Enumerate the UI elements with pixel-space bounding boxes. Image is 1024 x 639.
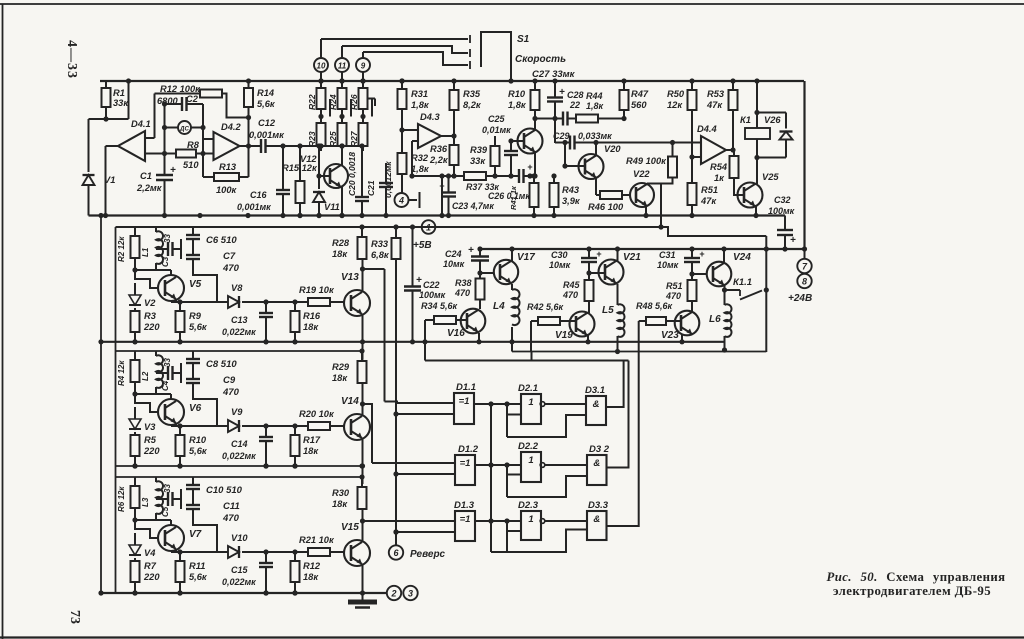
wire D1.1 out	[474, 403, 521, 405]
svg-text:V17: V17	[517, 252, 535, 263]
svg-text:R39: R39	[470, 145, 488, 155]
op-amp D4.4	[701, 136, 726, 164]
terminal circle 10	[314, 58, 328, 72]
svg-text:R12: R12	[303, 561, 321, 571]
row3 coupling U	[491, 530, 587, 553]
svg-text:470: 470	[222, 513, 240, 524]
transistor V6	[158, 399, 184, 425]
capacitor &#1057;9	[186, 378, 200, 380]
svg-text:+: +	[527, 162, 532, 172]
svg-text:R17: R17	[303, 435, 321, 445]
svg-text:V5: V5	[189, 279, 202, 290]
block edge x362	[362, 342, 364, 360]
page top border	[0, 3, 1024, 5]
V26 branch top	[757, 112, 786, 114]
svg-text:R6 12к: R6 12к	[117, 486, 126, 512]
svg-text:11: 11	[338, 61, 347, 70]
terminal circle 1	[422, 220, 436, 234]
svg-text:10мк: 10мк	[657, 260, 679, 270]
switch wire c	[363, 52, 468, 65]
svg-text:10мк: 10мк	[549, 260, 571, 270]
V24 base wire	[692, 273, 707, 275]
wire D1.2 in1	[372, 462, 455, 464]
resistor R13	[203, 176, 214, 178]
emitter wire V14	[362, 439, 364, 466]
transistor V7	[158, 525, 184, 551]
svg-text:R43: R43	[562, 185, 580, 195]
wire V8 to R19	[242, 301, 308, 303]
junction	[297, 213, 302, 218]
diode V9	[228, 420, 239, 432]
resistor R16	[294, 302, 296, 311]
R15 junctions	[297, 143, 302, 148]
V25 collector wire	[756, 158, 758, 185]
lower rail y352	[512, 351, 766, 353]
wire D1.1 in2	[396, 413, 454, 415]
capacitor C27/C28 electrolytic	[554, 81, 556, 98]
capacitor C1	[156, 174, 173, 176]
feedback bus x154	[154, 94, 156, 139]
resistor R48	[646, 317, 666, 325]
svg-text:0,022мк: 0,022мк	[222, 577, 256, 587]
svg-text:33к: 33к	[113, 98, 129, 108]
svg-text:470: 470	[222, 263, 240, 274]
+5V rail drop	[765, 236, 767, 352]
capacitor C23	[448, 176, 450, 193]
svg-text:S1: S1	[517, 34, 530, 45]
svg-text:С32: С32	[774, 195, 791, 205]
resistor R9	[179, 302, 181, 311]
relay K1 coil	[745, 128, 770, 139]
junction C16	[280, 143, 285, 148]
svg-text:1: 1	[426, 222, 431, 232]
resistor R21	[308, 548, 330, 556]
V12 base wire	[319, 175, 330, 177]
block edge x362	[362, 466, 364, 484]
inductor L2	[155, 351, 157, 356]
svg-text:L2: L2	[141, 371, 150, 381]
wire D4.1 output	[106, 145, 119, 147]
svg-text:R10: R10	[508, 89, 526, 99]
collector wire V13	[362, 259, 364, 291]
tap jog R26	[371, 99, 373, 117]
svg-text:R29: R29	[332, 362, 350, 372]
svg-text:R14: R14	[257, 88, 275, 98]
svg-text:33: 33	[163, 358, 172, 367]
+5V rail	[116, 227, 767, 236]
svg-text:100к: 100к	[216, 185, 238, 195]
svg-text:2,2мк: 2,2мк	[136, 183, 163, 193]
svg-text:1,8к: 1,8к	[586, 101, 604, 111]
svg-text:R7: R7	[144, 561, 157, 571]
capacitor &#1057;3	[156, 248, 168, 250]
tacho sensor DC	[178, 121, 191, 134]
resistor R14	[248, 81, 250, 88]
junction R47 rail	[621, 78, 626, 83]
junction R53 rail	[730, 78, 735, 83]
diode V1	[83, 175, 95, 185]
svg-text:электродвигателем ДБ-95: электродвигателем ДБ-95	[833, 584, 991, 598]
gate D3.3	[587, 511, 607, 540]
junction R26 rail	[360, 78, 365, 83]
V23 emitter wire	[681, 334, 683, 342]
svg-text:С7: С7	[223, 251, 236, 262]
svg-text:D2.2: D2.2	[518, 441, 539, 452]
svg-text:+: +	[468, 245, 474, 256]
svg-text:К1: К1	[740, 115, 751, 125]
signal wire y146	[266, 145, 363, 147]
diode V26	[780, 132, 793, 140]
svg-text:12к: 12к	[667, 100, 683, 110]
wire y118 left	[535, 118, 563, 120]
resistor R26	[362, 81, 364, 88]
wire D1.2 out	[475, 464, 521, 466]
wire D4.4 in2	[692, 156, 701, 158]
inductor L3	[155, 477, 157, 482]
transistor V16	[461, 309, 486, 334]
resistor R3	[131, 311, 140, 332]
emitter wire V7	[175, 549, 177, 552]
resistor R51	[688, 183, 697, 205]
wire D2.1 to D3.1	[544, 403, 586, 405]
collector wire V5	[156, 269, 171, 271]
resistor R53	[732, 81, 734, 90]
capacitor &#1057;6	[192, 227, 194, 235]
inductor L4	[512, 289, 520, 325]
svg-text:R9: R9	[189, 311, 202, 321]
svg-text:С25: С25	[488, 114, 506, 124]
svg-text:10мк: 10мк	[443, 259, 465, 269]
svg-text:1к: 1к	[714, 173, 725, 183]
wire C2 right	[187, 103, 204, 105]
resistor R10	[179, 426, 181, 435]
V21 emitter wire	[617, 284, 619, 305]
junction R50 D44	[689, 154, 694, 159]
svg-text:L1: L1	[141, 247, 150, 257]
junction S1 rail	[508, 78, 513, 83]
svg-text:Скорость: Скорость	[515, 54, 566, 65]
svg-text:R8: R8	[187, 140, 200, 150]
capacitor C24	[479, 249, 481, 257]
V20 collector wire	[595, 143, 597, 156]
svg-text:&: &	[593, 458, 600, 469]
V17 base wire	[480, 272, 494, 274]
svg-text:V11: V11	[324, 202, 340, 212]
svg-text:R10: R10	[189, 435, 207, 445]
svg-text:С24: С24	[445, 249, 462, 259]
svg-text:R20 10к: R20 10к	[299, 409, 335, 419]
svg-text:R49 100к: R49 100к	[626, 156, 667, 166]
svg-text:R2 12к: R2 12к	[117, 236, 126, 262]
emitter wire V5	[175, 299, 177, 302]
svg-text:V14: V14	[341, 396, 359, 407]
junction R31 rail	[399, 78, 404, 83]
svg-text:С11: С11	[223, 501, 240, 512]
wire D4.3 in2	[412, 140, 418, 142]
svg-text:0,022мк: 0,022мк	[222, 451, 256, 461]
resistor R1	[105, 81, 107, 88]
svg-text:0,033мк: 0,033мк	[578, 131, 612, 141]
svg-text:1,8к: 1,8к	[411, 100, 430, 110]
wire D1.3 in2	[396, 531, 455, 533]
svg-text:D2.3: D2.3	[518, 500, 539, 511]
svg-text:R35: R35	[463, 89, 481, 99]
svg-text:D2.1: D2.1	[518, 383, 538, 394]
svg-text:V4: V4	[144, 548, 156, 558]
svg-text:С28: С28	[567, 90, 584, 100]
svg-text:С20 0,0018: С20 0,0018	[347, 152, 357, 196]
junction reverse bus	[393, 529, 398, 534]
capacitor C26	[518, 169, 520, 183]
svg-text:R36: R36	[430, 144, 448, 154]
svg-text:9: 9	[361, 61, 366, 70]
svg-text:С1: С1	[140, 171, 152, 181]
svg-text:18к: 18к	[332, 499, 348, 509]
resistor R27	[359, 123, 368, 146]
junction R50 rail	[689, 78, 694, 83]
svg-text:R26: R26	[349, 94, 359, 110]
block3 top rail	[116, 476, 363, 478]
svg-text:R46 100: R46 100	[588, 202, 624, 212]
wire R12 right	[221, 94, 249, 118]
C16 hang	[282, 146, 284, 190]
gate D3.2	[587, 455, 607, 485]
V18 base wire	[511, 140, 524, 142]
junction V13 collector tap	[360, 266, 365, 271]
left bus	[100, 216, 102, 594]
svg-text:V10: V10	[231, 533, 248, 543]
svg-text:С30: С30	[551, 250, 568, 260]
svg-text:R32: R32	[411, 153, 429, 163]
resistor R45	[585, 280, 594, 301]
svg-text:Реверс: Реверс	[410, 549, 446, 560]
wire x128	[128, 81, 130, 119]
resistor R31	[401, 81, 403, 89]
R39 column	[494, 136, 496, 146]
V13 tap wire	[363, 268, 385, 270]
resistor R22	[320, 81, 322, 88]
diode V2	[134, 283, 136, 295]
svg-text:470: 470	[454, 288, 470, 298]
svg-text:D1.2: D1.2	[458, 444, 479, 455]
V12 collector wire	[341, 146, 343, 165]
lower rail y342	[101, 341, 725, 343]
resistor R15	[299, 146, 301, 181]
svg-text:470: 470	[222, 387, 240, 398]
bus x164	[164, 104, 166, 175]
svg-text:=1: =1	[460, 458, 471, 469]
svg-text:0,01мк: 0,01мк	[482, 125, 511, 135]
ground rail	[103, 592, 386, 594]
V23 base wire	[666, 320, 681, 322]
svg-text:3,9к: 3,9к	[562, 196, 581, 206]
svg-text:+24В: +24В	[788, 293, 812, 304]
V11 junctions	[316, 143, 321, 148]
op-amp D4.2	[214, 132, 240, 160]
svg-text:L4: L4	[493, 301, 505, 312]
resistor R42	[538, 317, 560, 325]
svg-text:2,2к: 2,2к	[429, 155, 449, 165]
svg-text:R30: R30	[332, 488, 350, 498]
gate D1.2	[455, 455, 475, 485]
gate D1.1	[454, 393, 474, 424]
svg-text:R19 10к: R19 10к	[299, 285, 335, 295]
junction	[98, 339, 103, 344]
capacitor C22	[412, 227, 414, 287]
shared feedback line y361	[425, 360, 629, 362]
page left border	[2, 4, 4, 639]
junction	[359, 463, 364, 468]
signal wire V6 emitter	[171, 425, 228, 427]
V21 base wire	[588, 262, 590, 273]
svg-text:V16: V16	[447, 328, 465, 339]
V21 collector wire	[617, 249, 619, 261]
svg-text:R42 5,6к: R42 5,6к	[527, 302, 564, 312]
svg-text:Рис. 50. Схема управления: Рис. 50. Схема управления	[826, 570, 1005, 584]
svg-text:&: &	[593, 399, 600, 410]
svg-text:18к: 18к	[332, 373, 348, 383]
capacitor C32	[784, 216, 786, 231]
base wire V7	[135, 520, 158, 538]
svg-text:V24: V24	[733, 252, 751, 263]
emitter wire V6	[175, 423, 177, 426]
capacitor C29 wire	[555, 142, 570, 144]
wire D4.1 in2 / R8 left	[145, 153, 176, 155]
V16 base wire	[456, 319, 467, 321]
capacitor &#1057;15	[265, 552, 267, 563]
junction V15 collector	[360, 518, 365, 523]
svg-text:R34 5,6к: R34 5,6к	[421, 301, 458, 311]
svg-text:1: 1	[528, 455, 533, 466]
svg-text:R15 12к: R15 12к	[282, 163, 318, 173]
svg-text:V19: V19	[555, 330, 573, 341]
resistor R28	[361, 227, 363, 237]
wire R44 left	[568, 118, 577, 120]
switch contact c	[469, 61, 471, 69]
wire x442 down	[441, 176, 443, 216]
svg-text:470: 470	[665, 291, 681, 301]
svg-text:4: 4	[398, 195, 404, 205]
ground symbol	[362, 593, 364, 600]
svg-text:R5: R5	[144, 435, 157, 445]
svg-text:С10 510: С10 510	[206, 485, 243, 496]
svg-text:D4.3: D4.3	[420, 112, 440, 122]
page bottom edge	[0, 636, 1024, 638]
svg-text:220: 220	[143, 572, 160, 582]
svg-text:47к: 47к	[700, 196, 717, 206]
+24V rail	[480, 248, 805, 250]
svg-text:ДС: ДС	[179, 126, 189, 133]
capacitor &#1057;7	[186, 254, 200, 256]
V26 branch bottom	[785, 140, 787, 158]
svg-text:R33: R33	[371, 239, 389, 249]
svg-text:10: 10	[317, 61, 326, 70]
svg-text:V20: V20	[604, 144, 621, 154]
wire C26 right	[524, 175, 535, 177]
wire R8 right	[196, 153, 214, 155]
diode V8	[228, 296, 239, 308]
gate D2.2	[521, 452, 541, 482]
svg-text:С6 510: С6 510	[206, 235, 237, 246]
V20 base wire	[565, 165, 585, 167]
wire D1.1 in1	[397, 402, 454, 404]
wire C29 right	[575, 142, 673, 144]
svg-text:8: 8	[802, 276, 807, 286]
svg-text:С22: С22	[423, 280, 440, 290]
V15 emitter wire	[362, 565, 364, 593]
junction	[177, 463, 182, 468]
svg-text:1: 1	[528, 514, 533, 525]
capacitor C30	[588, 249, 590, 258]
base node R6	[132, 517, 137, 522]
resistor R32	[401, 130, 403, 153]
wire R46 right	[622, 194, 630, 196]
base node R2	[132, 267, 137, 272]
svg-text:С9: С9	[223, 375, 236, 386]
R12 feedback wire	[155, 93, 201, 95]
junction	[245, 213, 250, 218]
switch contact a	[469, 35, 471, 43]
transistor V22	[630, 183, 654, 207]
svg-text:D1.3: D1.3	[454, 500, 475, 511]
svg-text:С12: С12	[258, 118, 276, 128]
resistor R6	[134, 477, 136, 486]
svg-text:R51: R51	[666, 281, 683, 291]
svg-text:5,6к: 5,6к	[189, 322, 208, 332]
svg-text:R48 5,6к: R48 5,6к	[636, 301, 673, 311]
diode V10	[228, 546, 239, 558]
transistor V25	[738, 183, 763, 208]
svg-text:510: 510	[183, 160, 199, 170]
R48 left wire	[639, 320, 646, 322]
wire D4.3 out	[441, 135, 454, 137]
feedback x412	[411, 141, 413, 176]
C2 feedback wire left	[165, 103, 183, 105]
terminal circle 4	[395, 193, 409, 207]
resistor R29	[361, 351, 363, 361]
wire R21 to V15	[330, 551, 344, 553]
svg-text:0,022мк: 0,022мк	[222, 327, 256, 337]
svg-text:D3.1: D3.1	[585, 385, 605, 396]
emitter wire V13	[362, 315, 364, 342]
svg-text:С29: С29	[553, 131, 570, 141]
svg-text:V12: V12	[300, 154, 317, 164]
junction	[132, 590, 137, 595]
V24 collector wire	[723, 249, 725, 262]
svg-text:1: 1	[528, 397, 533, 408]
junction	[263, 463, 268, 468]
junction	[263, 590, 268, 595]
collector wire V6	[156, 393, 171, 395]
svg-text:560: 560	[631, 100, 647, 110]
svg-text:0,0012мк: 0,0012мк	[383, 161, 393, 198]
bus x531	[530, 321, 532, 352]
capacitor C21	[385, 163, 387, 183]
svg-text:С14: С14	[231, 439, 248, 449]
svg-text:+: +	[699, 249, 704, 259]
R34 left wire	[425, 319, 434, 321]
terminal circle 3	[403, 586, 417, 600]
junction	[316, 213, 321, 218]
svg-text:6,8к: 6,8к	[371, 250, 390, 260]
resistor R33	[395, 227, 397, 238]
wire D2.3 to D3.3	[544, 520, 587, 522]
relay feed wire	[756, 81, 758, 128]
wire D4.4 in1	[673, 142, 702, 144]
svg-text:33к: 33к	[470, 156, 486, 166]
svg-text:V2: V2	[144, 298, 156, 308]
capacitor &#1057;11	[186, 504, 200, 506]
